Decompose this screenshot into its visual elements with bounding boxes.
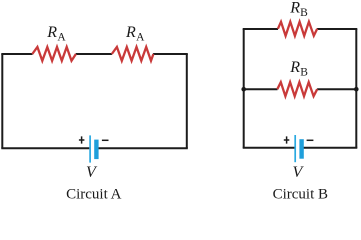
svg-text:R: R	[46, 24, 57, 41]
resistor RA (right)	[112, 47, 154, 61]
wire: circuit A top-middle segment	[76, 53, 112, 55]
wire: circuit B bottom-right segment	[303, 147, 357, 149]
svg-text:A: A	[57, 31, 66, 43]
battery V (circuit B) positive plate	[294, 135, 296, 162]
wire: circuit B top-left segment	[243, 28, 278, 30]
wire: circuit A bottom-right segment	[98, 147, 188, 149]
wire: circuit B top-right segment	[317, 28, 357, 30]
battery V (circuit B) negative plate	[299, 139, 303, 159]
battery V (circuit A) positive plate	[89, 135, 91, 162]
svg-text:Circuit A: Circuit A	[66, 186, 122, 202]
minus sign (circuit B)	[307, 139, 314, 141]
svg-text:B: B	[300, 7, 308, 19]
resistor RA (left)	[32, 47, 76, 61]
wire: circuit B middle-left segment	[244, 88, 278, 90]
svg-text:R: R	[289, 0, 300, 17]
node: junction dot right	[354, 87, 359, 92]
wire: circuit A bottom-left segment	[1, 147, 89, 149]
svg-text:R: R	[125, 24, 136, 41]
wire: circuit B bottom-left segment	[243, 147, 295, 149]
plus sign (circuit A)	[79, 136, 85, 143]
battery V (circuit A) negative plate	[94, 140, 98, 160]
svg-text:Circuit B: Circuit B	[273, 186, 328, 202]
minus sign (circuit A)	[102, 139, 109, 141]
wire: circuit B right vertical	[355, 29, 357, 148]
resistor RB (top)	[278, 22, 317, 36]
wire: circuit A left vertical	[1, 54, 3, 148]
wire: circuit B left vertical	[243, 29, 245, 148]
wire: circuit A top-left segment	[1, 53, 32, 55]
wire: circuit A top-right segment	[153, 53, 188, 55]
wire: circuit B middle-right segment	[317, 88, 356, 90]
plus sign (circuit B)	[284, 136, 290, 143]
wire: circuit A right vertical	[186, 54, 188, 148]
node: junction dot left	[241, 87, 246, 92]
svg-text:A: A	[136, 31, 145, 43]
resistor RB (middle)	[277, 82, 317, 96]
svg-text:R: R	[289, 59, 300, 76]
svg-text:B: B	[300, 67, 308, 79]
